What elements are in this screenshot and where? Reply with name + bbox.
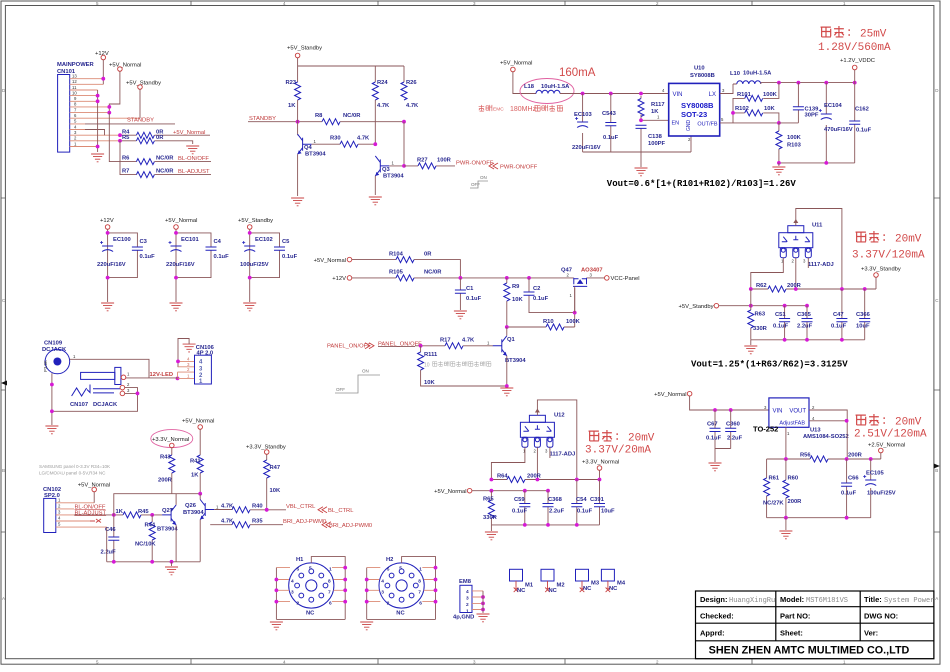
svg-text:R47: R47 <box>270 465 281 471</box>
svg-text:2: 2 <box>58 504 61 509</box>
svg-text:4.7K: 4.7K <box>221 504 234 510</box>
svg-text:NC: NC <box>549 588 558 594</box>
svg-text:R43: R43 <box>160 455 171 461</box>
svg-text:1: 1 <box>74 141 77 146</box>
svg-text:4: 4 <box>199 360 203 366</box>
svg-text:1: 1 <box>657 115 660 120</box>
svg-text:+3.3V_Standby: +3.3V_Standby <box>861 267 901 273</box>
svg-text:M3: M3 <box>591 581 600 587</box>
svg-text:VBL_CTRL: VBL_CTRL <box>286 504 316 510</box>
svg-text:5: 5 <box>387 567 390 573</box>
svg-text:+5V_Normal: +5V_Normal <box>173 130 205 136</box>
svg-text:R111: R111 <box>424 352 438 358</box>
svg-text:3: 3 <box>291 589 294 595</box>
svg-text:A: A <box>935 596 938 601</box>
svg-text:10: 10 <box>424 363 430 369</box>
svg-text:VIN: VIN <box>673 92 683 98</box>
svg-text:R56: R56 <box>800 453 811 459</box>
svg-text:R64: R64 <box>497 473 508 479</box>
svg-text:4.7K: 4.7K <box>406 103 419 109</box>
svg-text:M2: M2 <box>557 583 565 589</box>
svg-text:DWG NO:: DWG NO: <box>864 612 898 621</box>
svg-text:100uF/25V: 100uF/25V <box>240 262 269 268</box>
svg-text:200R: 200R <box>848 453 863 459</box>
svg-text:+5V_Normal: +5V_Normal <box>78 483 110 489</box>
svg-text:BT3904: BT3904 <box>157 527 178 533</box>
svg-text:6: 6 <box>329 601 332 607</box>
svg-text:0.1uF: 0.1uF <box>831 324 847 330</box>
svg-text:C2: C2 <box>533 286 540 292</box>
svg-text:10uH-1.5A: 10uH-1.5A <box>541 84 570 90</box>
svg-text:Model:: Model: <box>780 595 804 604</box>
svg-text:R101: R101 <box>737 92 752 98</box>
svg-text:R23: R23 <box>286 80 297 86</box>
svg-text:EC103: EC103 <box>574 112 593 118</box>
svg-text:2: 2 <box>297 601 300 607</box>
svg-text:3.37V/20mA: 3.37V/20mA <box>585 445 651 457</box>
svg-text:R104: R104 <box>389 251 404 257</box>
svg-text:+5V_Standby: +5V_Standby <box>679 304 714 310</box>
svg-text:OUT/FB: OUT/FB <box>697 122 717 128</box>
svg-text:11: 11 <box>72 85 77 90</box>
svg-text:1K: 1K <box>191 473 199 479</box>
svg-text:R105: R105 <box>389 270 404 276</box>
svg-text:R102: R102 <box>735 106 749 112</box>
svg-text:R117: R117 <box>651 102 665 108</box>
svg-text:SAMSUNG panel 0-3.3V R34=10K: SAMSUNG panel 0-3.3V R34=10K <box>39 464 111 469</box>
svg-text:H1: H1 <box>296 557 304 563</box>
svg-text:BT3904: BT3904 <box>183 510 204 516</box>
svg-text:EN: EN <box>672 121 680 127</box>
svg-text:C543: C543 <box>602 111 617 117</box>
svg-text:+3.3V_Normal: +3.3V_Normal <box>582 460 619 466</box>
svg-text:1K: 1K <box>288 103 296 109</box>
svg-text:Sheet:: Sheet: <box>780 629 803 638</box>
svg-text:Design:: Design: <box>700 595 728 604</box>
svg-text:470uF/16V: 470uF/16V <box>824 127 853 133</box>
svg-text:6: 6 <box>74 113 77 118</box>
svg-text:BL-ON/OFF: BL-ON/OFF <box>178 156 209 162</box>
svg-text:CN107: CN107 <box>70 402 88 408</box>
svg-text:1: 1 <box>487 341 490 346</box>
svg-text:PWR-ON/OFF: PWR-ON/OFF <box>456 161 494 167</box>
svg-text:12V-LED: 12V-LED <box>150 372 174 378</box>
svg-text:R41: R41 <box>190 459 201 465</box>
svg-text:P3.0K: P3.0K <box>43 360 48 372</box>
svg-text:Checked:: Checked: <box>700 612 734 621</box>
svg-text:2: 2 <box>387 601 390 607</box>
svg-text:+5V_Standby: +5V_Standby <box>238 218 273 224</box>
svg-text:+5V_Normal: +5V_Normal <box>654 392 686 398</box>
svg-text:10K: 10K <box>512 297 523 303</box>
svg-text:4.7K: 4.7K <box>462 338 475 344</box>
svg-text:1: 1 <box>787 431 790 436</box>
svg-text:C: C <box>935 298 939 303</box>
svg-text:BRI_ADJ-PWM0: BRI_ADJ-PWM0 <box>283 519 326 525</box>
svg-text:0R: 0R <box>424 251 432 257</box>
svg-text:4: 4 <box>291 579 294 585</box>
svg-text:System Power: System Power <box>884 597 934 605</box>
svg-text:100K: 100K <box>787 135 802 141</box>
svg-text:2.2uF: 2.2uF <box>727 436 743 442</box>
svg-text:+5V_Normal: +5V_Normal <box>434 489 466 495</box>
svg-text:BT3904: BT3904 <box>383 174 404 180</box>
svg-text:SOT-23: SOT-23 <box>681 110 707 119</box>
svg-text:20mV: 20mV <box>628 433 655 445</box>
svg-text:GND: GND <box>686 120 692 132</box>
svg-text:1: 1 <box>419 567 422 573</box>
svg-text:4.7K: 4.7K <box>221 518 234 524</box>
svg-text:1: 1 <box>187 373 190 378</box>
svg-text:NC: NC <box>396 611 405 617</box>
svg-text:8: 8 <box>418 579 421 585</box>
svg-text:3: 3 <box>722 88 725 93</box>
svg-text:30PF: 30PF <box>805 113 819 119</box>
svg-text:200R: 200R <box>788 499 803 505</box>
svg-text:ON: ON <box>362 369 369 374</box>
svg-text:B: B <box>935 468 938 473</box>
svg-text:+2.5V_Normal: +2.5V_Normal <box>868 443 905 449</box>
svg-text:2.2uF: 2.2uF <box>549 509 565 515</box>
svg-text:Vout=1.25*(1+R63/R62)=3.3125V: Vout=1.25*(1+R63/R62)=3.3125V <box>691 360 848 370</box>
svg-text:1: 1 <box>392 161 395 166</box>
svg-text:R30: R30 <box>330 136 341 142</box>
svg-text:R61: R61 <box>769 476 780 482</box>
svg-text:R7: R7 <box>122 169 129 175</box>
svg-text:10uH-1.5A: 10uH-1.5A <box>743 71 772 77</box>
svg-text:STANDBY: STANDBY <box>249 116 276 122</box>
svg-text:C5: C5 <box>282 239 290 245</box>
svg-text:+5V_Standby: +5V_Standby <box>287 46 322 52</box>
svg-text:1: 1 <box>73 354 76 359</box>
svg-text:3: 3 <box>58 510 61 515</box>
svg-text:Q4: Q4 <box>304 145 313 151</box>
svg-text:0.1uF: 0.1uF <box>214 254 230 260</box>
svg-text:MST6M181VS: MST6M181VS <box>806 597 848 605</box>
svg-text:BL-ADJUST: BL-ADJUST <box>75 510 107 516</box>
svg-text:4: 4 <box>812 416 815 421</box>
svg-text:U12: U12 <box>554 413 565 419</box>
svg-text:2: 2 <box>74 136 77 141</box>
svg-text:330R: 330R <box>483 515 498 521</box>
svg-text:5: 5 <box>74 119 77 124</box>
svg-text:3: 3 <box>127 388 130 393</box>
svg-text:R26: R26 <box>406 80 417 86</box>
svg-text:NC: NC <box>609 586 618 592</box>
svg-text:M4: M4 <box>617 581 626 587</box>
svg-text:2: 2 <box>534 449 537 454</box>
svg-text:C3: C3 <box>140 239 148 245</box>
svg-text:5: 5 <box>297 567 300 573</box>
svg-text:R6: R6 <box>122 156 130 162</box>
svg-text:VIN: VIN <box>773 409 783 415</box>
svg-text:1117-ADJ: 1117-ADJ <box>550 452 576 458</box>
svg-text:TO-252: TO-252 <box>753 425 778 434</box>
svg-text:+5V_Normal: +5V_Normal <box>109 63 141 69</box>
svg-text:+5V_Normal: +5V_Normal <box>182 419 214 425</box>
svg-text:C66: C66 <box>848 476 859 482</box>
svg-text:0.1uF: 0.1uF <box>706 436 722 442</box>
svg-text:C138: C138 <box>648 134 663 140</box>
svg-text:EC100: EC100 <box>113 237 131 243</box>
svg-text:VOUT: VOUT <box>789 409 806 415</box>
svg-text:0.1uF: 0.1uF <box>512 509 528 515</box>
svg-text:5: 5 <box>58 522 61 527</box>
svg-text:AdjustFAB: AdjustFAB <box>779 421 805 427</box>
svg-text:1: 1 <box>843 659 846 664</box>
svg-text:3: 3 <box>764 405 767 410</box>
svg-text:160mA: 160mA <box>559 67 596 79</box>
svg-text:+3.3V_Normal: +3.3V_Normal <box>152 437 189 443</box>
svg-text:U13: U13 <box>810 428 821 434</box>
svg-text:0.1uF: 0.1uF <box>773 324 789 330</box>
svg-text:D: D <box>935 88 939 93</box>
svg-text:10K: 10K <box>764 106 775 112</box>
svg-text:R9: R9 <box>512 284 520 290</box>
svg-text:BT3904: BT3904 <box>305 152 326 158</box>
svg-text:330R: 330R <box>753 326 768 332</box>
svg-text:220uF/16V: 220uF/16V <box>166 262 195 268</box>
svg-text:NC/0R: NC/0R <box>156 156 174 162</box>
svg-text:13: 13 <box>72 74 77 79</box>
svg-text:R8: R8 <box>315 113 323 119</box>
svg-text:EC101: EC101 <box>181 237 200 243</box>
svg-text:3: 3 <box>473 659 476 664</box>
svg-text:C391: C391 <box>590 497 605 503</box>
svg-text:NC/0R: NC/0R <box>343 113 361 119</box>
svg-text:PANEL_ON/OFF: PANEL_ON/OFF <box>327 344 371 350</box>
svg-text:5: 5 <box>399 566 402 572</box>
svg-text:0.1uF: 0.1uF <box>841 491 857 497</box>
svg-text:LX: LX <box>709 92 716 98</box>
svg-text:200R: 200R <box>527 473 542 479</box>
svg-text:2: 2 <box>656 659 659 664</box>
svg-text:Part NO:: Part NO: <box>780 612 810 621</box>
svg-text:R60: R60 <box>788 476 799 482</box>
svg-text:0.1uF: 0.1uF <box>856 128 872 134</box>
svg-text:C59: C59 <box>514 497 525 503</box>
svg-text:OFF: OFF <box>336 387 345 392</box>
svg-text:R40: R40 <box>252 504 263 510</box>
svg-text:EC105: EC105 <box>866 471 885 477</box>
svg-text:PWR-ON/OFF: PWR-ON/OFF <box>500 164 538 170</box>
svg-text:2: 2 <box>466 602 469 608</box>
svg-text:R24: R24 <box>377 80 388 86</box>
svg-text:100uF/25V: 100uF/25V <box>867 491 896 497</box>
svg-text:1: 1 <box>329 567 332 573</box>
svg-text:100PF: 100PF <box>648 141 666 147</box>
svg-text:R17: R17 <box>440 338 451 344</box>
svg-text:STANDBY: STANDBY <box>127 118 154 124</box>
svg-text:R44: R44 <box>145 523 156 529</box>
svg-text:Q27: Q27 <box>162 508 173 514</box>
svg-text:0.1uF: 0.1uF <box>466 296 482 302</box>
svg-text:R35: R35 <box>252 518 263 524</box>
svg-text:3: 3 <box>381 589 384 595</box>
svg-text:220uF/16V: 220uF/16V <box>572 145 601 151</box>
svg-text:100K: 100K <box>566 319 581 325</box>
svg-text:10uF: 10uF <box>856 324 870 330</box>
svg-text:C162: C162 <box>855 107 869 113</box>
svg-text:NC/0R: NC/0R <box>424 270 442 276</box>
svg-text:U10: U10 <box>694 66 705 72</box>
svg-text:7: 7 <box>418 589 421 595</box>
svg-text:0.1uF: 0.1uF <box>603 135 619 141</box>
svg-text:SY8008B: SY8008B <box>681 101 714 110</box>
svg-text:R62: R62 <box>756 283 767 289</box>
svg-text:R27: R27 <box>417 157 428 163</box>
svg-text:+12V: +12V <box>100 218 114 224</box>
svg-text:+5V_Normal: +5V_Normal <box>165 218 197 224</box>
svg-text:R63: R63 <box>755 312 766 318</box>
svg-text:CN109: CN109 <box>44 341 63 347</box>
svg-text:2: 2 <box>792 259 795 264</box>
svg-text:0.1uF: 0.1uF <box>533 296 549 302</box>
svg-text:+5V_Normal: +5V_Normal <box>500 61 532 67</box>
svg-text:Title:: Title: <box>864 595 882 604</box>
svg-text:1: 1 <box>127 372 130 377</box>
svg-text:4.7K: 4.7K <box>357 136 370 142</box>
svg-text:180MHz: 180MHz <box>510 106 537 113</box>
svg-text:9: 9 <box>74 96 77 101</box>
svg-text:1: 1 <box>216 505 219 510</box>
svg-text:2.2uF: 2.2uF <box>101 550 117 556</box>
svg-text:C54: C54 <box>576 497 587 503</box>
svg-text:MAINPOWER: MAINPOWER <box>57 62 95 68</box>
svg-text:2.2uF: 2.2uF <box>797 324 813 330</box>
svg-text:2: 2 <box>812 405 815 410</box>
svg-text:VCC-Panel: VCC-Panel <box>611 276 640 282</box>
svg-text:BL-ADJUST: BL-ADJUST <box>178 169 210 175</box>
svg-text:R10: R10 <box>543 319 554 325</box>
svg-text:4: 4 <box>58 516 61 521</box>
svg-text:1: 1 <box>570 293 573 298</box>
svg-text:10uF: 10uF <box>601 509 615 515</box>
svg-text:NC: NC <box>306 611 315 617</box>
svg-text:5: 5 <box>96 659 99 664</box>
svg-text:5: 5 <box>721 117 724 122</box>
svg-text:3: 3 <box>199 366 203 372</box>
svg-text:HuangXingRu: HuangXingRu <box>729 597 775 605</box>
svg-text:200R: 200R <box>158 478 173 484</box>
svg-text:L18: L18 <box>524 84 535 90</box>
svg-text:Q3: Q3 <box>382 167 391 173</box>
svg-text:Q26: Q26 <box>185 503 197 509</box>
svg-text:NC: NC <box>517 588 526 594</box>
svg-text:3: 3 <box>466 596 469 602</box>
svg-text:0.1uF: 0.1uF <box>140 254 156 260</box>
svg-text:4: 4 <box>283 659 286 664</box>
svg-text:8: 8 <box>74 102 77 107</box>
svg-text:4: 4 <box>466 589 469 595</box>
svg-text:R103: R103 <box>787 143 802 149</box>
svg-text:NC/0R: NC/0R <box>156 169 174 175</box>
svg-text:NC/10K: NC/10K <box>135 542 156 548</box>
svg-text:4: 4 <box>74 124 77 129</box>
svg-text:A: A <box>2 596 5 601</box>
svg-text:3: 3 <box>74 130 77 135</box>
svg-text:1117-ADJ: 1117-ADJ <box>808 262 834 268</box>
svg-text:DCJACK: DCJACK <box>93 402 118 408</box>
svg-text:4: 4 <box>187 356 190 361</box>
svg-text:C4: C4 <box>214 239 222 245</box>
svg-text:2: 2 <box>127 382 130 387</box>
svg-text:1: 1 <box>58 498 61 503</box>
svg-text:8: 8 <box>328 579 331 585</box>
svg-text:BRI_ADJ-PWM0: BRI_ADJ-PWM0 <box>329 523 372 529</box>
svg-text:0.1uF: 0.1uF <box>282 254 298 260</box>
svg-text:R5: R5 <box>122 135 130 141</box>
svg-text:Vout=0.6*[1+(R101+R102)/R103]=: Vout=0.6*[1+(R101+R102)/R103]=1.26V <box>607 179 797 189</box>
svg-text:EC102: EC102 <box>255 237 273 243</box>
svg-text:20mV: 20mV <box>895 417 922 429</box>
svg-text:Apprd:: Apprd: <box>700 629 725 638</box>
svg-text:25mV: 25mV <box>860 29 887 41</box>
svg-text:+1.2V_VDDC: +1.2V_VDDC <box>840 58 875 64</box>
svg-text:0R: 0R <box>156 135 164 141</box>
svg-text:6: 6 <box>419 601 422 607</box>
svg-text:C67: C67 <box>707 422 718 428</box>
svg-text:M1: M1 <box>525 583 534 589</box>
svg-text:4p,GND: 4p,GND <box>453 615 474 621</box>
svg-text:C47: C47 <box>833 312 844 318</box>
svg-text:10K: 10K <box>270 488 281 494</box>
svg-text:7: 7 <box>328 589 331 595</box>
svg-text:4: 4 <box>662 88 665 93</box>
svg-text:+12V: +12V <box>332 276 346 282</box>
svg-text:Ver:: Ver: <box>864 629 878 638</box>
svg-text:L10: L10 <box>730 71 740 77</box>
svg-text:5: 5 <box>309 566 312 572</box>
svg-text:100R: 100R <box>437 157 452 163</box>
svg-text:Q1: Q1 <box>507 337 516 343</box>
svg-text:3: 3 <box>187 362 190 367</box>
svg-text:NC/27K: NC/27K <box>763 501 784 507</box>
svg-text:NC: NC <box>583 586 592 592</box>
svg-text:C360: C360 <box>726 422 740 428</box>
svg-text:EC104: EC104 <box>824 103 843 109</box>
svg-text:BT3904: BT3904 <box>505 358 526 364</box>
svg-text:LG/CMO/AU panel 0-5V,R34 NC: LG/CMO/AU panel 0-5V,R34 NC <box>39 471 106 476</box>
svg-text:B: B <box>2 468 5 473</box>
svg-text:10: 10 <box>72 90 77 95</box>
svg-text:100K: 100K <box>763 92 778 98</box>
svg-text:1.28V/560mA: 1.28V/560mA <box>818 42 891 54</box>
svg-text:AMS1084-SO252: AMS1084-SO252 <box>803 434 849 440</box>
svg-text:+5V_Normal: +5V_Normal <box>314 258 346 264</box>
svg-text:10K: 10K <box>424 380 435 386</box>
svg-text:SY8008B: SY8008B <box>690 73 715 79</box>
svg-text:EM8: EM8 <box>459 579 472 585</box>
svg-text:0.1uF: 0.1uF <box>577 509 593 515</box>
svg-text:C366: C366 <box>856 312 871 318</box>
svg-text:3: 3 <box>803 259 806 264</box>
svg-text:12: 12 <box>72 79 77 84</box>
svg-text:3: 3 <box>545 449 548 454</box>
svg-text:1K: 1K <box>116 509 124 515</box>
svg-text:SHEN ZHEN AMTC MULTIMED CO.,LT: SHEN ZHEN AMTC MULTIMED CO.,LTD <box>709 645 910 657</box>
svg-text:EMC: EMC <box>493 107 504 113</box>
svg-text:20mV: 20mV <box>895 234 922 246</box>
svg-text:R45: R45 <box>138 509 149 515</box>
svg-text:+5V_Standby: +5V_Standby <box>126 81 161 87</box>
svg-text:ON: ON <box>480 175 487 180</box>
svg-text:R65: R65 <box>483 497 494 503</box>
svg-text:4: 4 <box>381 579 384 585</box>
svg-text:4.7K: 4.7K <box>377 103 390 109</box>
svg-text:C368: C368 <box>548 497 563 503</box>
svg-text:220uF/16V: 220uF/16V <box>97 262 126 268</box>
